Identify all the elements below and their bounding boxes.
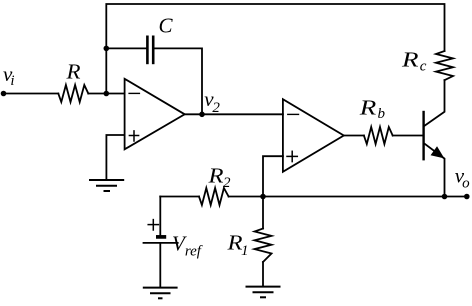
op-amp U1	[125, 79, 185, 150]
wire top feedback rail	[106, 4, 444, 94]
wire Rb to transistor base	[393, 135, 423, 137]
U1 plus sign	[129, 131, 138, 141]
resistor R2	[199, 188, 229, 205]
wire input to R	[4, 93, 59, 95]
svg-text:C: C	[159, 14, 174, 38]
svg-text:vi: vi	[3, 62, 15, 89]
wire U1 output to U2 inverting input	[185, 113, 283, 115]
svg-text:Rb: Rb	[359, 96, 386, 123]
wire U2 non-inverting input down to node	[263, 156, 283, 196]
node emitter/vo junction	[442, 194, 448, 200]
wire battery to ground	[159, 243, 161, 288]
svg-text:Rc: Rc	[401, 48, 427, 75]
svg-text:R2: R2	[207, 164, 231, 192]
transistor Q1 base bar	[422, 112, 424, 159]
svg-text:vo: vo	[455, 164, 470, 192]
wire to capacitor left plate	[106, 47, 146, 49]
wire U2 output to Rb	[344, 135, 364, 137]
wire capacitor right plate to v2	[155, 48, 202, 114]
battery Vref negative plate	[144, 242, 178, 244]
node capacitor branch junction	[104, 46, 110, 52]
U1 minus sign	[129, 92, 139, 94]
node vo terminal	[464, 194, 470, 200]
ground (Vref)	[144, 288, 177, 299]
Q1 emitter arrow	[431, 147, 443, 158]
ground (U1 +)	[90, 180, 123, 191]
wire bottom output rail	[263, 196, 467, 198]
resistor Rc	[436, 51, 453, 80]
resistor R	[58, 85, 88, 102]
node v2	[199, 112, 205, 118]
battery plus sign	[148, 220, 158, 230]
svg-text:R: R	[65, 60, 80, 84]
wire Vref to R2	[160, 196, 199, 198]
wire R1 to ground	[262, 262, 264, 287]
svg-text:Vref: Vref	[172, 232, 203, 260]
op-amp U2	[283, 99, 344, 172]
battery Vref positive plate	[156, 235, 166, 239]
resistor R1	[255, 229, 272, 263]
capacitor C	[147, 37, 153, 63]
wire R to op-amp U1 inverting input	[88, 93, 124, 95]
svg-text:R1: R1	[226, 230, 248, 258]
U2 minus sign	[288, 113, 299, 115]
U2 plus sign	[287, 151, 297, 161]
svg-text:v2: v2	[204, 87, 220, 116]
wire U1 non-inverting input to ground	[106, 135, 124, 179]
wire R2 down to battery Vref	[159, 197, 161, 236]
wire R2 to node	[229, 196, 263, 198]
wire node down to R1	[262, 197, 264, 229]
node R1/R2/U2+ junction	[260, 194, 266, 200]
node input terminal	[1, 91, 7, 97]
resistor Rb	[364, 127, 393, 144]
node at R / feedback junction	[104, 91, 110, 97]
Q1 collector	[425, 80, 445, 125]
Q1 emitter	[425, 144, 445, 197]
ground (R1)	[247, 287, 280, 298]
